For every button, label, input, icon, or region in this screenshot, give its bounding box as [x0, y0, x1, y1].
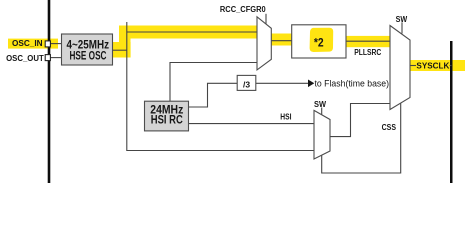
highlight: SYSCLK band — [407, 60, 465, 71]
svg-text:/3: /3 — [243, 79, 250, 89]
pin OSC_IN — [45, 41, 50, 47]
chip boundary left line — [48, 0, 51, 183]
svg-text:SYSCLK: SYSCLK — [416, 62, 449, 71]
svg-text:HSE OSC: HSE OSC — [70, 51, 107, 63]
svg-text:SW: SW — [396, 15, 408, 24]
svg-text:to Flash(time base): to Flash(time base) — [315, 78, 390, 88]
highlight: top HSE bus band — [119, 26, 258, 39]
mux U1 PLLSRC selector — [257, 17, 271, 70]
HSI RC box — [145, 101, 189, 131]
wire SYSCLK dash left — [410, 65, 416, 67]
arrowhead to Flash — [308, 80, 314, 88]
mux U2 SW system clock selector — [390, 26, 410, 110]
wire HSE to lower mux — [126, 150, 314, 152]
highlight: HSE output horizontal band — [113, 42, 131, 58]
HSE OSC box — [62, 34, 113, 65]
control line RCC_CFGR0 — [265, 14, 267, 24]
highlight blob in *2 box — [310, 28, 334, 52]
svg-text:HSI RC: HSI RC — [151, 115, 183, 127]
chip boundary right line — [450, 41, 453, 183]
svg-text:PLLSRC: PLLSRC — [354, 48, 381, 57]
svg-text:CSS: CSS — [382, 123, 397, 132]
wire HSI to lower SW mux — [189, 123, 315, 125]
highlight: mux1 output band — [271, 34, 292, 46]
svg-text:*2: *2 — [314, 37, 324, 49]
highlight: PLLSRC band — [346, 36, 390, 47]
svg-text:OSC_OUT: OSC_OUT — [6, 54, 44, 63]
PLL *2 box — [292, 25, 346, 58]
highlight: OSC_IN yellow band — [8, 39, 58, 49]
wire *2 to SW mux (PLLSRC) — [346, 40, 390, 42]
wire lower mux output to SW mux — [330, 104, 390, 137]
svg-text:SW: SW — [314, 100, 326, 109]
wire OSC_OUT pin to HSE box — [50, 57, 62, 59]
wire SYSCLK dash right — [450, 65, 452, 67]
mux U3 lower SW selector — [314, 110, 330, 159]
wire HSE output — [113, 49, 127, 51]
wire CSS loop — [322, 103, 401, 173]
svg-text:RCC_CFGR0: RCC_CFGR0 — [220, 5, 266, 14]
control line SW upper — [401, 22, 403, 33]
wire HSE top bus to mux1 — [127, 31, 257, 33]
/3 divider box — [237, 75, 256, 90]
wire OSC_IN pin to HSE box — [50, 43, 62, 45]
wire HSE vertical through bus — [126, 22, 128, 151]
highlight: HSE vertical band — [119, 26, 131, 58]
wire /3 to Flash arrow — [256, 82, 309, 84]
wire HSI RC to /3 — [189, 83, 238, 107]
control line SW lower — [321, 108, 323, 116]
wire mux1 output to *2 — [271, 40, 291, 42]
pin OSC_OUT — [45, 55, 50, 61]
svg-text:OSC_IN: OSC_IN — [12, 39, 43, 48]
svg-text:HSI: HSI — [280, 113, 291, 122]
wire HSI to mux1 lower input — [170, 63, 257, 102]
